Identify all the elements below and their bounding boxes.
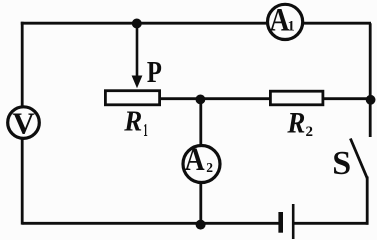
battery long thin plate: [292, 204, 295, 240]
wire middle horizontal R1 to R2: [159, 97, 270, 100]
ammeter A1: [268, 4, 303, 39]
wire top horizontal: [21, 22, 371, 25]
wire bottom right segment: [294, 222, 368, 225]
svg-text:1: 1: [288, 19, 295, 35]
switch S blade: [350, 139, 367, 179]
resistor R1 (rheostat body): [105, 91, 159, 105]
resistor R2: [270, 91, 323, 105]
wiper arrow P shaft: [136, 25, 139, 78]
node junction dot middle right: [366, 95, 376, 105]
svg-text:1: 1: [143, 120, 148, 140]
wire left vertical: [21, 22, 24, 225]
wire right vertical lower: [366, 177, 369, 225]
wire right vertical upper: [369, 23, 372, 137]
wire middle horizontal R2 to right: [323, 97, 371, 100]
svg-text:R: R: [287, 107, 306, 140]
battery short thick plate: [278, 212, 283, 233]
svg-text:2: 2: [306, 124, 314, 140]
wiper arrow P head: [132, 76, 143, 89]
node junction dot top: [132, 19, 142, 29]
voltmeter V: [8, 107, 40, 139]
svg-text:V: V: [12, 105, 35, 140]
svg-text:2: 2: [206, 160, 213, 175]
svg-text:R: R: [123, 106, 142, 138]
svg-text:P: P: [147, 54, 162, 89]
ammeter A2: [183, 146, 220, 183]
wire bottom left segment: [22, 222, 279, 225]
node junction dot middle left: [196, 95, 206, 105]
node junction dot bottom: [196, 220, 206, 230]
svg-text:A: A: [185, 142, 205, 178]
wire A2 branch vertical: [199, 99, 202, 224]
svg-text:S: S: [332, 145, 351, 182]
